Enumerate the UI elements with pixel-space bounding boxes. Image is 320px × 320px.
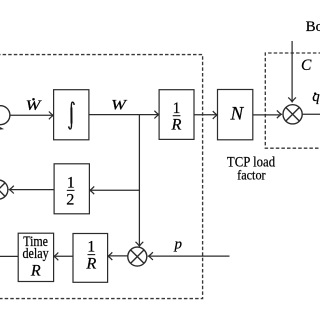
svg-text:delay: delay (23, 246, 50, 262)
svg-text:W: W (26, 98, 42, 113)
svg-text:factor: factor (237, 168, 266, 183)
svg-text:p: p (174, 236, 183, 252)
svg-text:Bott: Bott (306, 19, 320, 35)
svg-text:R: R (30, 263, 41, 280)
svg-text:R: R (171, 114, 182, 133)
svg-text:W: W (111, 98, 127, 113)
svg-text:N: N (229, 104, 244, 125)
svg-text:q: q (312, 89, 320, 105)
svg-text:2: 2 (66, 189, 74, 208)
svg-text:C: C (301, 57, 312, 74)
svg-text:R: R (85, 254, 96, 273)
